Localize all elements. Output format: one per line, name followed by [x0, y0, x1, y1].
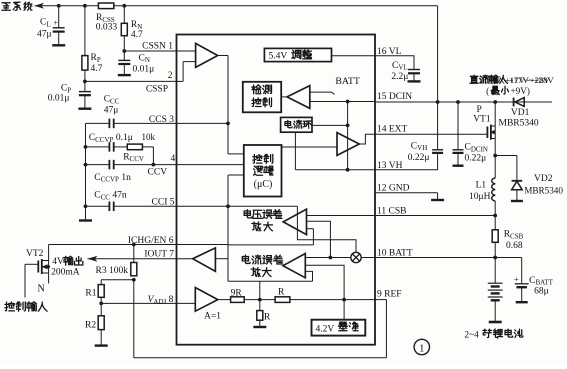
svg-text:R: R: [278, 287, 285, 297]
svg-text:MBR5340: MBR5340: [524, 186, 563, 196]
svg-text:VT2: VT2: [26, 249, 44, 259]
svg-text:+: +: [54, 19, 59, 28]
svg-text:VD1: VD1: [511, 108, 530, 118]
svg-text:11 CSB: 11 CSB: [377, 206, 406, 216]
svg-text:10k: 10k: [142, 132, 156, 142]
svg-text:47μ: 47μ: [104, 106, 119, 116]
svg-text:200mA: 200mA: [51, 267, 80, 277]
svg-text:CCC 47n: CCC 47n: [94, 191, 127, 202]
svg-text:4: 4: [170, 154, 175, 164]
svg-text:CCI 5: CCI 5: [152, 197, 175, 207]
svg-text:4V: 4V: [52, 257, 64, 267]
svg-text:47μ: 47μ: [37, 30, 52, 40]
svg-text:4.2V: 4.2V: [316, 324, 335, 334]
svg-text:R3 100k: R3 100k: [96, 266, 129, 276]
svg-text:68μ: 68μ: [534, 287, 549, 297]
svg-text:L1: L1: [476, 181, 487, 191]
svg-text:1: 1: [419, 342, 425, 354]
svg-text:0.01μ: 0.01μ: [48, 94, 70, 104]
svg-text:(: (: [486, 86, 489, 96]
svg-text:BATT: BATT: [335, 76, 360, 87]
svg-text:5.4V: 5.4V: [269, 51, 288, 61]
svg-text:12 GND: 12 GND: [377, 184, 410, 194]
svg-text:4.7: 4.7: [131, 30, 143, 40]
svg-text:2: 2: [168, 71, 173, 81]
svg-text:CCV: CCV: [148, 167, 168, 177]
svg-text:2.2μ: 2.2μ: [391, 72, 408, 82]
svg-text:N: N: [38, 284, 45, 295]
svg-text:VD2: VD2: [534, 174, 553, 184]
svg-text:MBR5340: MBR5340: [499, 118, 539, 128]
svg-text:CSSN 1: CSSN 1: [142, 41, 173, 51]
svg-text:0.22μ: 0.22μ: [465, 154, 487, 164]
svg-text:10 BATT: 10 BATT: [377, 249, 413, 259]
svg-text:16 VL: 16 VL: [377, 47, 402, 57]
svg-text:4.7: 4.7: [91, 64, 103, 74]
svg-text:R: R: [264, 312, 271, 322]
svg-text:2~4: 2~4: [464, 330, 479, 340]
svg-text:0.01μ: 0.01μ: [133, 64, 155, 74]
svg-text:R1: R1: [85, 288, 96, 298]
svg-text:13 VH: 13 VH: [377, 161, 403, 171]
svg-text:P: P: [477, 105, 482, 115]
svg-text:+: +: [514, 274, 519, 284]
svg-text:10μH: 10μH: [469, 192, 491, 202]
svg-text:+9V): +9V): [511, 86, 530, 96]
svg-text:14 EXT: 14 EXT: [377, 124, 408, 134]
svg-text:R2: R2: [85, 321, 96, 331]
svg-text:CCS 3: CCS 3: [149, 115, 174, 125]
svg-text:15 DCIN: 15 DCIN: [377, 92, 412, 102]
svg-text:0.68: 0.68: [506, 241, 523, 251]
svg-text:9 REF: 9 REF: [377, 290, 402, 300]
svg-text:IOUT 7: IOUT 7: [144, 250, 174, 260]
svg-text:+17V~+28V: +17V~+28V: [509, 75, 555, 85]
svg-text:VT1: VT1: [473, 115, 491, 125]
svg-text:(μC): (μC): [254, 179, 273, 190]
svg-text:0.22μ: 0.22μ: [408, 153, 430, 163]
svg-text:9R: 9R: [231, 289, 243, 299]
svg-text:A=1: A=1: [204, 312, 221, 322]
svg-text:CSSP: CSSP: [146, 84, 168, 94]
svg-text:0.033: 0.033: [96, 23, 118, 33]
